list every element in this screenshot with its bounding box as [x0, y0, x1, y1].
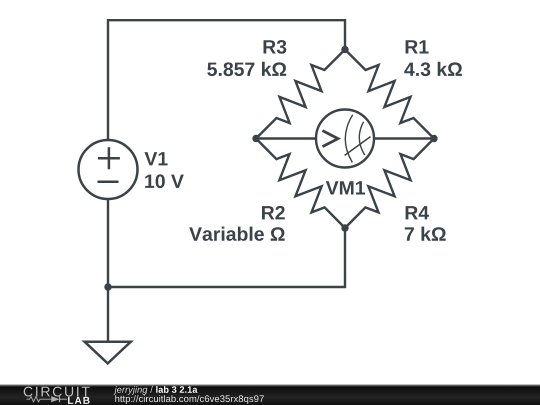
resistor R2 [256, 139, 345, 229]
label R4 value 7 kOhm [405, 227, 446, 241]
node: bridge bottom junction [341, 224, 348, 231]
label V1 designator [145, 152, 168, 165]
voltmeter scale arc 2 [359, 122, 365, 155]
voltmeter arrow glyph [323, 131, 339, 147]
wire: voltmeter VM1 left lead [256, 137, 317, 139]
resistor R4 [345, 139, 434, 229]
voltmeter VM1 circle [316, 110, 374, 168]
CircuitLab logo resistor and diode symbol [27, 396, 68, 402]
label V1 value 10 V [145, 174, 184, 188]
CircuitLab logo word LAB [68, 397, 90, 404]
label R3 value 5.857 kOhm [207, 62, 286, 76]
node: bridge left junction [252, 135, 259, 142]
footer url [115, 395, 263, 404]
label R2 value Variable Ohm [189, 227, 285, 241]
label R2 designator [262, 206, 285, 220]
voltage source V1 circle [79, 140, 138, 199]
node: bridge right junction [430, 135, 437, 142]
label R1 value 4.3 kOhm [404, 62, 462, 76]
wire bottom: bridge bottom node down and left to ground junction [108, 228, 345, 287]
voltmeter scale arc 1 [345, 115, 352, 163]
node: bridge top junction [341, 46, 348, 53]
label R3 designator [264, 40, 287, 54]
label VM1 [326, 181, 365, 194]
voltmeter needle [345, 137, 371, 156]
wire: V1 bottom lead down to ground junction [107, 200, 109, 288]
ground symbol triangle [85, 342, 131, 364]
wire: voltmeter VM1 right lead [374, 137, 435, 139]
node: ground junction [104, 283, 111, 290]
V1 plus sign [98, 147, 120, 169]
V1 minus sign [98, 181, 119, 184]
CircuitLab logo word CIRCUIT [24, 387, 90, 397]
footer title: jerryjing / lab 3 2.1a [114, 386, 148, 395]
resistor R1 [345, 50, 434, 139]
label R1 designator [406, 40, 429, 53]
footer bar [0, 384, 540, 405]
resistor R3 [256, 50, 345, 139]
wire top: V1 top lead to bridge top node [108, 20, 345, 139]
label R4 designator [406, 206, 429, 219]
wire: ground stem [107, 287, 109, 341]
